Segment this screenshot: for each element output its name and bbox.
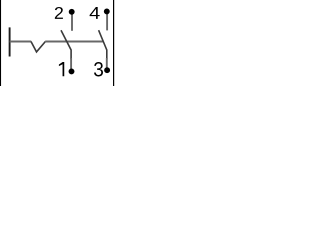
- left border line: [0, 0, 2, 86]
- switch blade B: [99, 30, 107, 59]
- pin 3 dot: [104, 67, 110, 73]
- switch blade A: [61, 30, 71, 59]
- pin 3 lead: [106, 58, 108, 69]
- pin 1 lead: [70, 58, 72, 70]
- pin 1 label: [59, 62, 64, 76]
- pin 4 label: [90, 7, 100, 19]
- pin 2 dot: [69, 9, 75, 15]
- pin 4 dot: [104, 8, 110, 14]
- right border line: [113, 0, 115, 86]
- actuator bar: [9, 27, 11, 56]
- wire V notch: [31, 42, 45, 52]
- pin 2 label: [55, 7, 63, 19]
- pin 4 lead: [106, 14, 108, 31]
- pin 1 dot: [69, 68, 75, 74]
- wire: [10, 41, 32, 43]
- wire: [45, 41, 103, 43]
- pin 2 lead: [71, 14, 73, 31]
- pin 3 label: [94, 62, 103, 76]
